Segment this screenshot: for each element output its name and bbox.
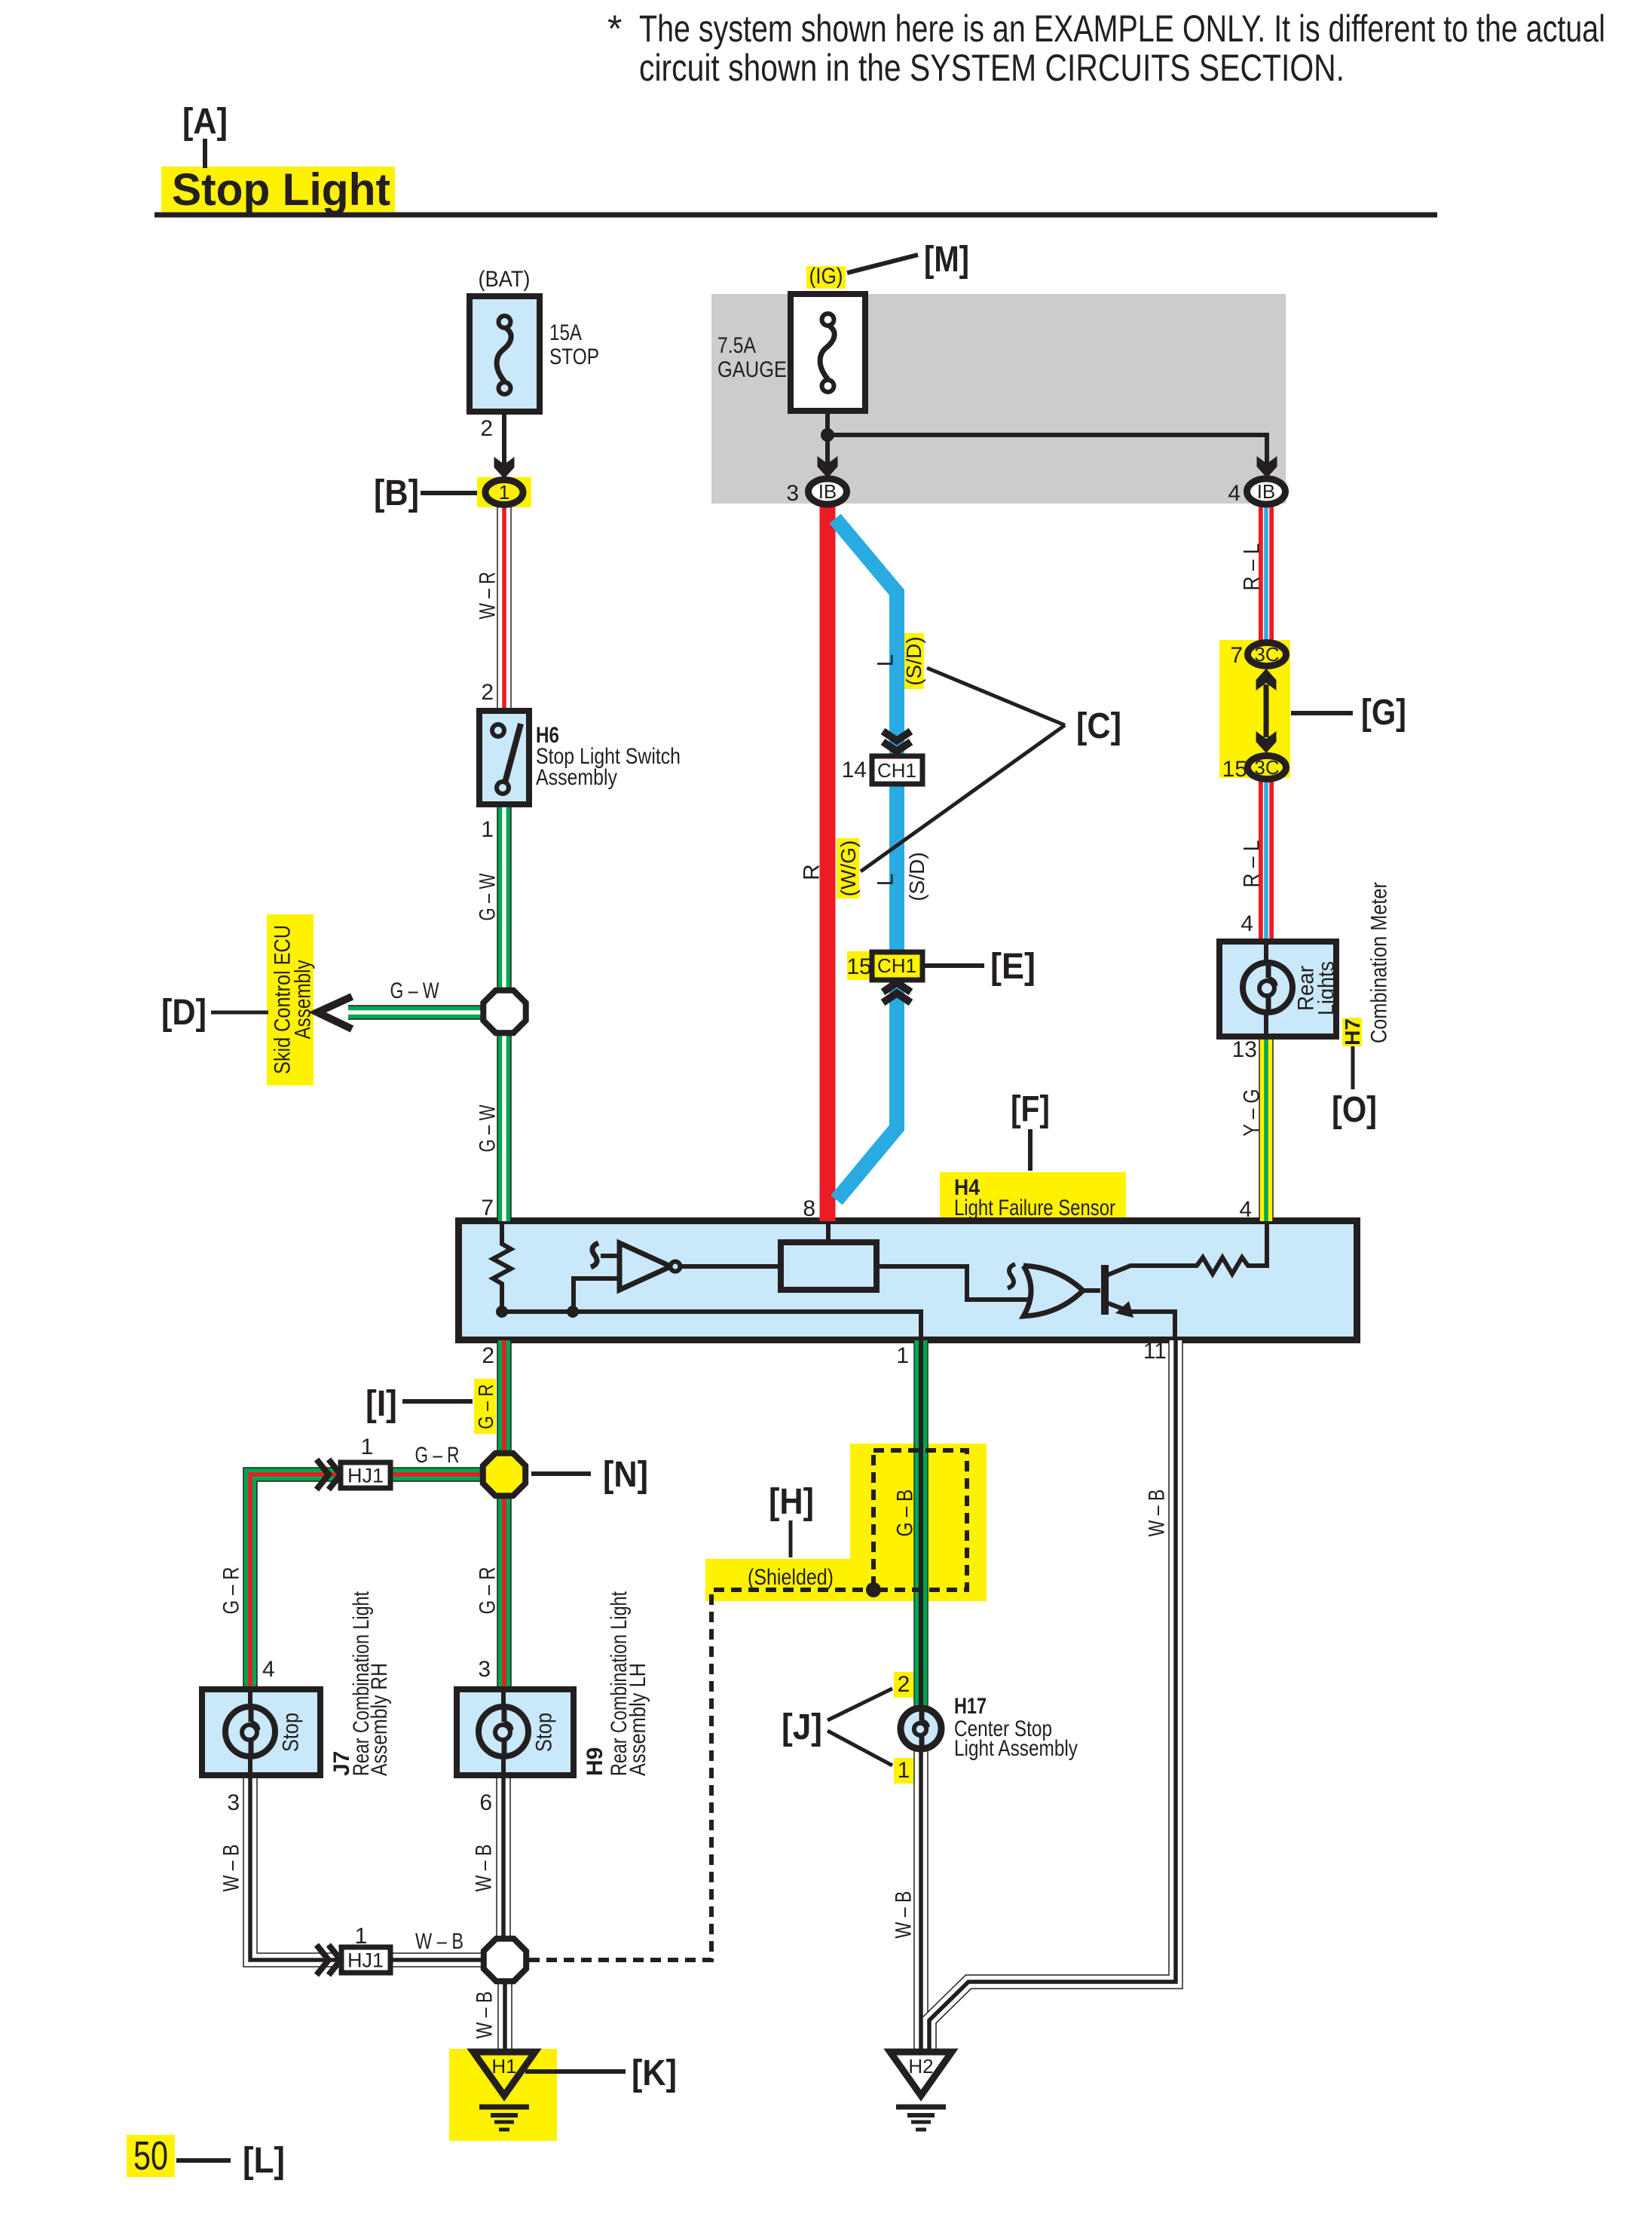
svg-text:*: * (607, 8, 622, 50)
svg-text:14: 14 (842, 758, 867, 782)
svg-text:(W/G): (W/G) (837, 841, 860, 897)
svg-text:13: 13 (1232, 1037, 1257, 1062)
svg-text:Combination Meter: Combination Meter (1367, 882, 1392, 1043)
svg-text:G – B: G – B (893, 1490, 918, 1537)
svg-text:Stop: Stop (532, 1713, 557, 1752)
svg-text:G – R: G – R (476, 1567, 500, 1615)
svg-text:[L]: [L] (243, 2141, 285, 2181)
svg-text:11: 11 (1143, 1339, 1167, 1364)
svg-text:Stop Light: Stop Light (172, 164, 390, 215)
svg-text:[J]: [J] (782, 1707, 822, 1747)
svg-text:4: 4 (1228, 481, 1241, 506)
svg-text:15: 15 (1222, 757, 1247, 782)
svg-text:CH1: CH1 (877, 954, 916, 977)
svg-text:G – R: G – R (219, 1567, 244, 1615)
svg-text:[I]: [I] (366, 1384, 397, 1424)
svg-text:Light Failure Sensor: Light Failure Sensor (954, 1196, 1115, 1220)
svg-text:Lights: Lights (1314, 961, 1339, 1015)
svg-text:3C: 3C (1254, 756, 1279, 779)
svg-text:[K]: [K] (632, 2053, 677, 2093)
svg-text:[F]: [F] (1011, 1089, 1050, 1129)
svg-text:R: R (800, 864, 824, 880)
svg-text:H1: H1 (491, 2055, 516, 2078)
svg-text:3: 3 (786, 481, 799, 506)
svg-text:2: 2 (480, 416, 493, 441)
svg-text:(IG): (IG) (809, 264, 843, 289)
svg-text:L: L (873, 654, 898, 667)
svg-text:IB: IB (1257, 480, 1276, 503)
svg-text:G – W: G – W (476, 1104, 500, 1152)
svg-text:[D]: [D] (161, 993, 206, 1033)
svg-text:1: 1 (896, 1343, 909, 1368)
svg-text:4: 4 (1241, 911, 1253, 936)
svg-text:[A]: [A] (182, 102, 228, 142)
svg-text:Assembly: Assembly (291, 960, 316, 1040)
svg-text:STOP: STOP (549, 344, 599, 369)
svg-text:2: 2 (482, 1343, 494, 1368)
svg-text:W – B: W – B (892, 1891, 916, 1939)
svg-text:7: 7 (481, 1196, 494, 1220)
svg-text:(S/D): (S/D) (905, 852, 928, 901)
svg-text:circuit shown in the SYSTEM CI: circuit shown in the SYSTEM CIRCUITS SEC… (639, 47, 1345, 89)
svg-text:1: 1 (361, 1435, 374, 1459)
svg-text:R – L: R – L (1240, 544, 1265, 591)
svg-text:H17: H17 (954, 1694, 987, 1719)
svg-text:[N]: [N] (603, 1455, 648, 1495)
svg-text:3: 3 (478, 1657, 491, 1682)
svg-text:W – R: W – R (476, 572, 500, 620)
svg-text:G – R: G – R (415, 1443, 460, 1468)
svg-text:G – R: G – R (474, 1384, 497, 1429)
svg-text:Y – G: Y – G (1240, 1089, 1265, 1137)
svg-text:[E]: [E] (990, 947, 1036, 987)
svg-text:1: 1 (499, 481, 509, 504)
svg-text:3C: 3C (1254, 643, 1279, 666)
svg-text:1: 1 (898, 1758, 910, 1783)
svg-text:W – B: W – B (415, 1929, 463, 1954)
svg-text:W – B: W – B (473, 1992, 497, 2039)
svg-text:8: 8 (803, 1196, 815, 1221)
svg-text:W – B: W – B (472, 1845, 497, 1892)
svg-text:HJ1: HJ1 (347, 1464, 384, 1487)
svg-text:Stop: Stop (279, 1713, 304, 1752)
svg-text:IB: IB (818, 480, 837, 503)
svg-text:Assembly: Assembly (536, 765, 617, 790)
svg-text:L: L (873, 874, 898, 886)
svg-text:H7: H7 (1341, 1018, 1364, 1046)
svg-text:Assembly LH: Assembly LH (626, 1663, 650, 1776)
svg-text:W – B: W – B (1145, 1490, 1170, 1537)
svg-text:GAUGE: GAUGE (717, 357, 787, 382)
svg-text:CH1: CH1 (877, 759, 916, 782)
svg-text:G – W: G – W (476, 873, 500, 920)
svg-text:50: 50 (133, 2133, 168, 2179)
svg-text:[O]: [O] (1332, 1090, 1377, 1130)
svg-text:[B]: [B] (374, 473, 419, 513)
svg-text:4: 4 (262, 1657, 275, 1682)
svg-text:[H]: [H] (769, 1482, 814, 1522)
svg-text:[M]: [M] (924, 240, 969, 280)
svg-text:7: 7 (1230, 643, 1243, 668)
svg-text:[C]: [C] (1076, 706, 1121, 746)
svg-text:6: 6 (479, 1790, 492, 1815)
svg-text:H9: H9 (583, 1747, 607, 1776)
svg-text:(S/D): (S/D) (902, 636, 925, 685)
svg-text:Assembly RH: Assembly RH (367, 1663, 392, 1776)
svg-text:The system shown here is an EX: The system shown here is an EXAMPLE ONLY… (639, 8, 1605, 50)
svg-text:3: 3 (227, 1790, 240, 1815)
svg-text:[G]: [G] (1361, 693, 1406, 733)
svg-text:R – L: R – L (1240, 841, 1265, 888)
svg-text:(Shielded): (Shielded) (748, 1565, 834, 1590)
svg-text:7.5A: 7.5A (717, 333, 756, 358)
svg-text:W – B: W – B (219, 1845, 244, 1892)
svg-text:HJ1: HJ1 (347, 1949, 384, 1971)
svg-text:(BAT): (BAT) (479, 267, 531, 292)
svg-text:H2: H2 (908, 2055, 933, 2078)
svg-text:15A: 15A (549, 320, 582, 345)
svg-text:G – W: G – W (390, 978, 440, 1003)
svg-text:Light Assembly: Light Assembly (954, 1736, 1078, 1761)
svg-text:2: 2 (481, 680, 494, 705)
svg-text:1: 1 (481, 817, 494, 842)
svg-text:2: 2 (898, 1672, 910, 1697)
svg-text:4: 4 (1239, 1197, 1252, 1222)
svg-text:15: 15 (846, 954, 871, 979)
